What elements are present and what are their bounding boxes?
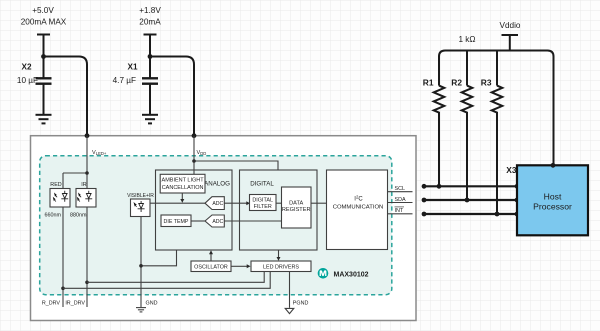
power Vddio stub — [502, 35, 519, 51]
IC outer module box — [31, 136, 417, 321]
label DATA REGISTER — [282, 201, 311, 214]
wire VDD pin down — [193, 136, 195, 174]
svg-text:4.7 µF: 4.7 µF — [113, 76, 136, 85]
node INT left end — [422, 212, 427, 217]
wire ADC2 to data register — [224, 220, 281, 222]
node GND junction — [139, 264, 143, 268]
svg-text:SDA: SDA — [395, 197, 406, 203]
digital block container — [240, 170, 318, 250]
wire data register to I2C — [311, 202, 327, 204]
LED D1 RED box — [50, 189, 70, 208]
wire VLED+ from X2 node to IC — [44, 57, 88, 136]
svg-text:GND: GND — [146, 300, 158, 306]
power +1.8V stub — [144, 35, 157, 79]
wire photodiode to GND pin — [140, 217, 142, 308]
die temp box — [161, 215, 191, 227]
host processor X3 box — [517, 165, 588, 235]
svg-text:OSCILLATOR: OSCILLATOR — [194, 265, 228, 271]
svg-text:DIGITAL: DIGITAL — [250, 181, 274, 188]
power +5.0V stub — [37, 35, 50, 79]
svg-text:DIE TEMP: DIE TEMP — [164, 219, 189, 225]
node X1 junction — [148, 54, 153, 59]
ground symbol PGND (open) — [285, 308, 294, 313]
LED D2 IR box — [76, 189, 96, 208]
LED D2 IR symbol — [77, 191, 92, 202]
svg-text:+1.8V: +1.8V — [139, 6, 161, 15]
wire bus tee to R3 — [496, 51, 498, 86]
svg-text:PGND: PGND — [293, 300, 309, 306]
node IR_DRV junction — [85, 281, 89, 285]
wire rail to IR LED — [86, 173, 88, 189]
ADC U-A2 pentagon — [205, 215, 224, 227]
wire LED drivers to PGND — [289, 272, 291, 308]
svg-text:I2C: I2C — [354, 195, 363, 203]
node VLED+ rail junction — [85, 171, 89, 175]
wire INT pin stub — [388, 213, 413, 215]
svg-text:REGISTER: REGISTER — [282, 207, 311, 213]
svg-text:COMMUNICATION: COMMUNICATION — [333, 205, 384, 211]
photodiode D3 symbol — [134, 201, 145, 212]
wire IR cathode to IR_DRV — [86, 207, 88, 307]
capacitor X1 — [142, 78, 158, 114]
svg-text:ADC: ADC — [212, 201, 223, 207]
svg-text:R_DRV: R_DRV — [42, 300, 61, 306]
svg-text:VISIBLE+IR: VISIBLE+IR — [127, 193, 154, 199]
wire photodiode to ADC1 — [150, 202, 205, 204]
wire VDD from X1 node to IC — [150, 57, 194, 136]
node VDD entry on module edge — [192, 133, 197, 138]
svg-text:1 kΩ: 1 kΩ — [458, 35, 475, 44]
node SDA at host edge — [515, 198, 520, 203]
svg-text:10 µF: 10 µF — [17, 76, 38, 85]
svg-text:20mA: 20mA — [139, 17, 161, 26]
ground symbol GND — [136, 308, 146, 312]
label I2C COMMUNICATION — [333, 195, 384, 211]
svg-text:CANCELLATION: CANCELLATION — [162, 185, 204, 191]
capacitor X2 — [36, 78, 52, 114]
label Host Processor — [533, 192, 572, 212]
analog block container — [156, 170, 233, 250]
svg-text:SCL: SCL — [395, 186, 406, 192]
wire oscillator up arrow to analog — [210, 254, 212, 261]
svg-text:ANALOG: ANALOG — [204, 181, 230, 188]
wire LED anode rail — [63, 172, 87, 174]
svg-text:LED DRIVERS: LED DRIVERS — [263, 265, 299, 271]
node SCL at host edge — [515, 184, 520, 189]
svg-text:AMBIENT LIGHT: AMBIENT LIGHT — [162, 178, 205, 184]
node VLED+ entry on module edge — [85, 133, 90, 138]
resistor R2 — [462, 86, 473, 200]
svg-text:IR: IR — [81, 182, 86, 188]
ground (X2) — [36, 115, 52, 124]
svg-text:FILTER: FILTER — [254, 204, 272, 210]
ADC U-A1 pentagon — [205, 197, 224, 210]
svg-text:X1: X1 — [127, 62, 137, 71]
wire oscillator to LED drivers arrow — [231, 265, 247, 267]
svg-text:VLED+: VLED+ — [92, 150, 107, 156]
digital filter box — [250, 195, 277, 211]
wire digital filter to data register — [276, 202, 282, 204]
wire Vddio bus with corners to R1 and Host — [439, 51, 554, 166]
wire ADC1 to digital filter with arrow — [224, 202, 246, 204]
wire die temp to ADC2 — [191, 220, 205, 222]
wire rail to RED LED — [62, 173, 64, 189]
pin stubs SCL SDA INT — [388, 192, 413, 214]
ground (X1) — [142, 115, 158, 124]
svg-text:RED: RED — [50, 182, 61, 188]
svg-text:R3: R3 — [481, 77, 492, 87]
node INT at host edge — [515, 212, 520, 217]
svg-text:X3: X3 — [506, 165, 517, 175]
svg-text:DATA: DATA — [289, 201, 303, 207]
svg-text:Host: Host — [544, 192, 562, 202]
node R_DRV junction — [61, 287, 65, 291]
node R3-INT junction — [495, 212, 500, 217]
MAX30102 dashed boundary — [40, 156, 392, 295]
data register box — [282, 187, 312, 228]
wire digital down arrow to LED drivers — [278, 250, 280, 257]
wire LED driver IR return — [87, 272, 264, 283]
wire VDD branch to digital — [194, 161, 278, 170]
LED D1 RED symbol — [53, 191, 68, 202]
wire SCL pin stub — [388, 191, 413, 193]
node host VDD pin — [551, 163, 556, 168]
svg-text:880nm: 880nm — [70, 213, 87, 219]
svg-text:MAX30102: MAX30102 — [334, 271, 369, 278]
resistor R1 — [434, 86, 445, 187]
wire INT to host — [424, 213, 517, 215]
LED drivers box — [251, 261, 311, 272]
wire bus tee to R2 — [466, 51, 468, 86]
svg-text:R1: R1 — [423, 77, 434, 87]
node R1-SCL junction — [437, 184, 442, 189]
svg-text:IR_DRV: IR_DRV — [65, 300, 85, 306]
svg-text:660nm: 660nm — [44, 213, 61, 219]
wire SDA pin stub — [388, 202, 413, 204]
maxim logo — [318, 268, 329, 279]
oscillator box — [191, 261, 231, 272]
svg-text:Processor: Processor — [533, 201, 572, 211]
wire RED cathode to R_DRV — [62, 207, 64, 307]
svg-text:INT: INT — [395, 208, 404, 214]
node SDA left end — [422, 198, 427, 203]
resistor R3 — [492, 86, 503, 214]
svg-text:ADC: ADC — [212, 219, 223, 225]
label AMBIENT LIGHT CANCELLATION — [162, 178, 205, 191]
wire analog ground branch — [141, 250, 177, 266]
node SCL left end — [422, 184, 427, 189]
svg-text:X2: X2 — [21, 62, 31, 71]
wire VLED+ pin down to LED rail — [86, 136, 88, 173]
wire ALC down arrow — [181, 193, 183, 199]
svg-text:R2: R2 — [451, 77, 462, 87]
wire LED driver RED return — [63, 272, 270, 289]
wire SDA to host — [424, 199, 517, 201]
label DIGITAL FILTER — [252, 198, 273, 211]
node X2 junction — [41, 54, 46, 59]
I2C communication box — [327, 170, 388, 250]
ambient light cancellation box — [160, 174, 205, 193]
svg-text:VDD: VDD — [197, 150, 207, 156]
node R2-SDA junction — [465, 198, 470, 203]
svg-text:200mA MAX: 200mA MAX — [21, 17, 67, 26]
svg-text:DIGITAL: DIGITAL — [252, 198, 273, 204]
photodiode D3 box — [131, 199, 151, 217]
svg-text:+5.0V: +5.0V — [32, 6, 54, 15]
svg-text:Vddio: Vddio — [500, 21, 521, 30]
wire SCL to host — [424, 185, 517, 187]
node VDD branch junction — [192, 159, 196, 163]
